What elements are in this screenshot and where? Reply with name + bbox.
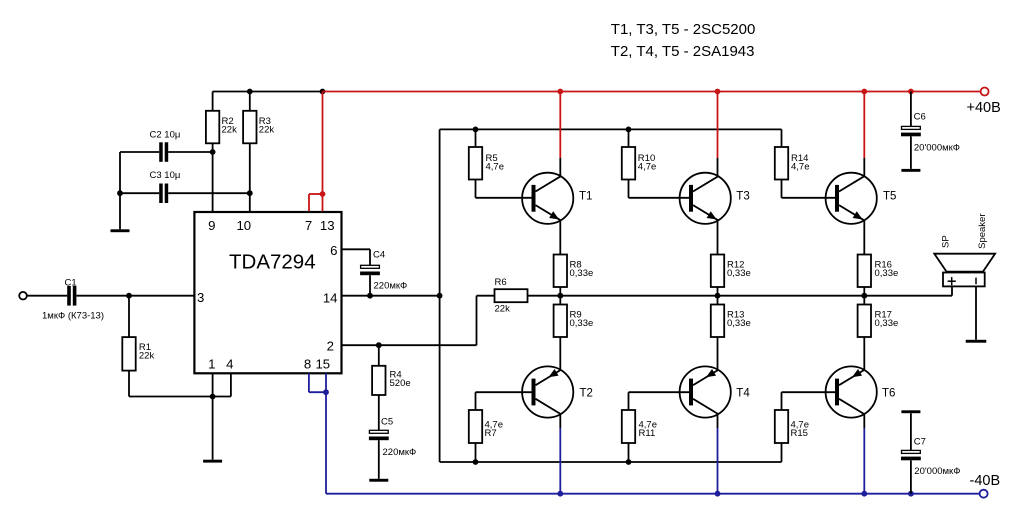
- wire C3 left: [120, 192, 159, 194]
- resistor R17: [858, 305, 871, 338]
- node junction T4 rail: [715, 491, 721, 497]
- wire C5 bottom lead: [378, 440, 380, 479]
- resistor R16: [858, 255, 871, 288]
- wire R1 to pins 1 4: [129, 396, 231, 398]
- transistor T2: [522, 366, 573, 417]
- op-amp U1 TDA7294 body: [194, 212, 341, 373]
- capacitor C5: [369, 430, 388, 433]
- wire T3 collector lead: [717, 158, 719, 176]
- wire R1 top lead: [128, 296, 130, 337]
- node junction out col2: [715, 293, 721, 299]
- svg-text:R6: R6: [495, 277, 507, 288]
- ground C6: [901, 169, 920, 172]
- svg-text:T4: T4: [736, 388, 750, 400]
- svg-text:C6: C6: [914, 111, 926, 122]
- wire C7 top lead: [910, 413, 912, 450]
- resistor R8: [554, 255, 567, 288]
- svg-text:520e: 520e: [390, 378, 411, 389]
- resistor R6: [495, 289, 528, 302]
- svg-text:2: 2: [327, 338, 334, 353]
- transistor T1: [522, 173, 573, 224]
- capacitor C2: [159, 142, 163, 162]
- wire R15 to T6 base: [782, 391, 840, 393]
- node junction C3 left: [117, 190, 123, 196]
- wire C4 top lead: [369, 249, 371, 265]
- wire R14 top lead: [781, 129, 783, 147]
- wire pin 6 lead: [342, 248, 371, 250]
- wire R13 to T4: [717, 337, 719, 370]
- wire T2 collector lead: [559, 414, 561, 428]
- svg-text:R11: R11: [639, 428, 656, 439]
- wire R4 top lead: [378, 345, 380, 366]
- ground C5: [369, 479, 388, 482]
- wire C4 bottom lead: [369, 275, 371, 296]
- wire R8 to output: [559, 287, 561, 296]
- resistor R1: [122, 337, 135, 371]
- svg-text:20'000мкФ: 20'000мкФ: [914, 466, 960, 477]
- resistor R14: [775, 147, 788, 180]
- svg-text:22k: 22k: [495, 304, 511, 315]
- svg-text:+40В: +40В: [967, 100, 1001, 116]
- wire T5 emitter lead: [863, 220, 865, 254]
- resistor R12: [711, 255, 724, 288]
- wire C2 C3 left vertical: [119, 152, 121, 229]
- capacitor C1: [67, 286, 71, 306]
- svg-text:4,7e: 4,7e: [486, 162, 505, 173]
- svg-text:T5: T5: [883, 191, 896, 203]
- svg-text:T1: T1: [579, 191, 592, 203]
- svg-text:0,33e: 0,33e: [727, 318, 751, 329]
- wire pin 1 lead: [212, 373, 214, 396]
- wire R1 bottom lead: [128, 371, 130, 397]
- svg-text:0,33e: 0,33e: [570, 268, 594, 279]
- wire +40V down to pins 7 13: [322, 92, 324, 212]
- terminal -40V: [980, 490, 988, 498]
- svg-text:4: 4: [226, 356, 233, 371]
- wire output to R9: [559, 296, 561, 305]
- svg-text:T2, T4, T5 - 2SA1943: T2, T4, T5 - 2SA1943: [611, 43, 755, 60]
- svg-text:22k: 22k: [259, 125, 275, 136]
- svg-text:22k: 22k: [139, 350, 155, 361]
- resistor R4: [372, 366, 385, 395]
- svg-text:4,7e: 4,7e: [638, 162, 657, 173]
- svg-text:4,7e: 4,7e: [791, 162, 810, 173]
- ground pin 1 4: [203, 460, 222, 463]
- wire red drop T5: [863, 92, 865, 159]
- wire pin 7 red bridge: [309, 193, 323, 195]
- svg-text:10: 10: [236, 218, 251, 233]
- svg-text:22k: 22k: [222, 125, 238, 136]
- node junction R1 input: [126, 293, 132, 299]
- wire pin 8 blue bridge: [309, 391, 326, 393]
- svg-text:TDA7294: TDA7294: [229, 251, 316, 274]
- resistor R13: [711, 305, 724, 338]
- wire R15 bottom lead: [781, 443, 783, 462]
- terminal input: [19, 292, 27, 300]
- node junction C3 pin10: [247, 190, 253, 196]
- svg-text:R15: R15: [791, 428, 808, 439]
- wire C2 right: [168, 151, 212, 153]
- node junction pin1 ground: [210, 394, 216, 400]
- wire speaker plus lead: [951, 286, 953, 295]
- node junction pin13 red: [320, 191, 326, 197]
- svg-text:T6: T6: [882, 388, 895, 400]
- resistor R11: [622, 410, 635, 443]
- wire R11 to T4 base: [629, 391, 694, 393]
- wire R10 to T3 base: [628, 180, 630, 198]
- ground C2 C3: [111, 229, 130, 232]
- node junction R11 bottom: [626, 459, 632, 465]
- svg-text:C3 10μ: C3 10μ: [150, 170, 181, 181]
- node junction T2 rail: [557, 491, 563, 497]
- resistor R15: [775, 410, 788, 443]
- wire R11 bottom lead: [628, 443, 630, 462]
- node junction R7 bottom: [473, 459, 479, 465]
- speaker minus mark: [975, 278, 977, 285]
- svg-text:-40В: -40В: [970, 473, 1001, 489]
- wire blue drop T6: [863, 428, 865, 494]
- svg-text:9: 9: [208, 218, 215, 233]
- transistor T4: [680, 366, 731, 417]
- wire R2 bottom lead to pin 9: [212, 143, 214, 212]
- wire pin 14 lead: [342, 295, 440, 297]
- node junction R3 top: [247, 89, 253, 95]
- resistor R10: [622, 147, 635, 180]
- wire speaker minus lead: [975, 286, 977, 339]
- node junction C4 output: [367, 293, 373, 299]
- wire R7 bottom lead: [475, 443, 477, 462]
- wire R10 top lead: [628, 129, 630, 147]
- svg-text:T2: T2: [580, 388, 593, 400]
- node junction R10 bias: [626, 126, 632, 132]
- wire pin 7 red lead: [308, 194, 310, 211]
- svg-text:20'000мкФ: 20'000мкФ: [914, 142, 960, 153]
- wire feedback vertical: [476, 296, 478, 346]
- wire T1 collector lead: [559, 158, 561, 176]
- wire R12 to output: [717, 287, 719, 296]
- svg-text:7: 7: [305, 218, 312, 233]
- wire R4 to C5: [378, 395, 380, 430]
- transistor T5: [826, 173, 877, 224]
- wire R3 top lead: [249, 92, 251, 111]
- capacitor C7: [902, 450, 921, 453]
- wire C1 to pin 3: [76, 295, 194, 297]
- wire top bias line: [440, 128, 782, 130]
- node junction out col3: [861, 293, 867, 299]
- wire C6 bottom lead: [910, 136, 912, 169]
- wire C2 left: [120, 151, 159, 153]
- wire T4 collector lead: [717, 414, 719, 428]
- wire +40V rail red: [323, 91, 981, 93]
- wire R7 to T2 base: [476, 391, 536, 393]
- svg-text:R7: R7: [485, 428, 497, 439]
- node junction T1 collector rail: [557, 89, 563, 95]
- wire pin 8 blue lead: [308, 373, 310, 392]
- svg-text:3: 3: [197, 290, 204, 305]
- resistor R2: [206, 111, 219, 144]
- svg-text:14: 14: [323, 291, 338, 306]
- wire input to C1: [27, 295, 67, 297]
- wire C3 right: [168, 192, 250, 194]
- wire output to R13: [717, 296, 719, 305]
- svg-text:1мкФ (К73-13): 1мкФ (К73-13): [42, 310, 104, 321]
- svg-text:220мкФ: 220мкФ: [374, 280, 408, 291]
- svg-text:13: 13: [320, 218, 335, 233]
- svg-text:0,33e: 0,33e: [727, 268, 751, 279]
- svg-text:T1, T3, T5 - 2SC5200: T1, T3, T5 - 2SC5200: [611, 21, 756, 38]
- node junction bootstrap: [437, 293, 443, 299]
- wire pin 2 lead: [342, 344, 477, 346]
- node junction C6 rail: [908, 89, 914, 95]
- wire R17 to T6: [863, 337, 865, 370]
- node junction T5 collector rail: [861, 89, 867, 95]
- wire R5 top lead: [475, 129, 477, 147]
- svg-text:8: 8: [304, 356, 311, 371]
- wire C6 top lead: [910, 92, 912, 127]
- capacitor C3: [159, 184, 163, 204]
- node junction R5 bias: [473, 126, 479, 132]
- svg-text:C4: C4: [373, 249, 385, 260]
- node junction T3 collector rail: [715, 89, 721, 95]
- node junction out col1: [557, 293, 563, 299]
- speaker plus mark: [948, 280, 956, 282]
- capacitor C6: [902, 126, 921, 129]
- wire T5 collector lead: [863, 158, 865, 176]
- resistor R3: [243, 111, 256, 144]
- wire R5 to T1 base: [475, 180, 477, 198]
- node junction C2 R2: [210, 149, 216, 155]
- wire red drop T1: [559, 92, 561, 159]
- node junction R4 top: [376, 342, 382, 348]
- wire R14 to T5 base: [781, 180, 783, 198]
- svg-text:C7: C7: [914, 436, 926, 447]
- wire R6 right lead: [528, 295, 561, 297]
- wire top rail black segment: [213, 91, 323, 93]
- terminal +40V: [981, 88, 989, 96]
- wire blue drop T4: [717, 428, 719, 494]
- svg-text:0,33e: 0,33e: [875, 318, 899, 329]
- ground C7 top: [901, 410, 920, 413]
- wire output line: [560, 295, 952, 297]
- svg-text:C5: C5: [381, 416, 393, 427]
- wire bootstrap vertical: [439, 129, 441, 462]
- wire T6 collector lead: [863, 414, 865, 428]
- svg-text:0,33e: 0,33e: [875, 268, 899, 279]
- node junction C7 rail: [908, 491, 914, 497]
- wire pin 4 lead: [230, 373, 232, 396]
- transistor T3: [680, 173, 731, 224]
- resistor R5: [469, 147, 482, 180]
- wire R3 bottom lead to pin 10: [249, 143, 251, 212]
- svg-text:Speaker: Speaker: [977, 214, 988, 249]
- svg-text:T3: T3: [736, 191, 749, 203]
- svg-text:0,33e: 0,33e: [570, 318, 594, 329]
- svg-text:15: 15: [315, 356, 330, 371]
- svg-text:220мкФ: 220мкФ: [383, 447, 417, 458]
- wire R9 to T2: [559, 337, 561, 370]
- wire T3 emitter lead: [717, 220, 719, 254]
- svg-text:SP: SP: [940, 235, 951, 248]
- svg-text:1: 1: [208, 356, 215, 371]
- node junction T6 rail: [861, 491, 867, 497]
- wire T1 emitter lead: [559, 220, 561, 254]
- wire blue drop T2: [559, 428, 561, 494]
- wire -40V rail blue: [326, 493, 980, 495]
- wire pin 15 blue vertical: [325, 373, 327, 493]
- node junction +40V takeoff: [320, 89, 326, 95]
- capacitor C4: [361, 265, 380, 268]
- transistor T6: [826, 366, 877, 417]
- ground speaker: [966, 340, 987, 343]
- wire C7 bottom lead: [910, 460, 912, 493]
- wire red drop T3: [717, 92, 719, 159]
- resistor R7: [469, 410, 482, 443]
- resistor R9: [554, 305, 567, 338]
- svg-text:6: 6: [330, 243, 337, 258]
- wire ground lead pin1: [212, 397, 214, 460]
- wire output to R17: [863, 296, 865, 305]
- wire R6 left lead: [477, 295, 495, 297]
- svg-text:C2 10μ: C2 10μ: [150, 129, 181, 140]
- wire R2 top lead: [212, 92, 214, 111]
- node junction pin 15 blue: [323, 389, 329, 395]
- speaker SP cone: [934, 254, 995, 272]
- speaker SP box: [943, 273, 985, 287]
- wire R16 to output: [863, 287, 865, 296]
- wire bottom bias line: [440, 461, 782, 463]
